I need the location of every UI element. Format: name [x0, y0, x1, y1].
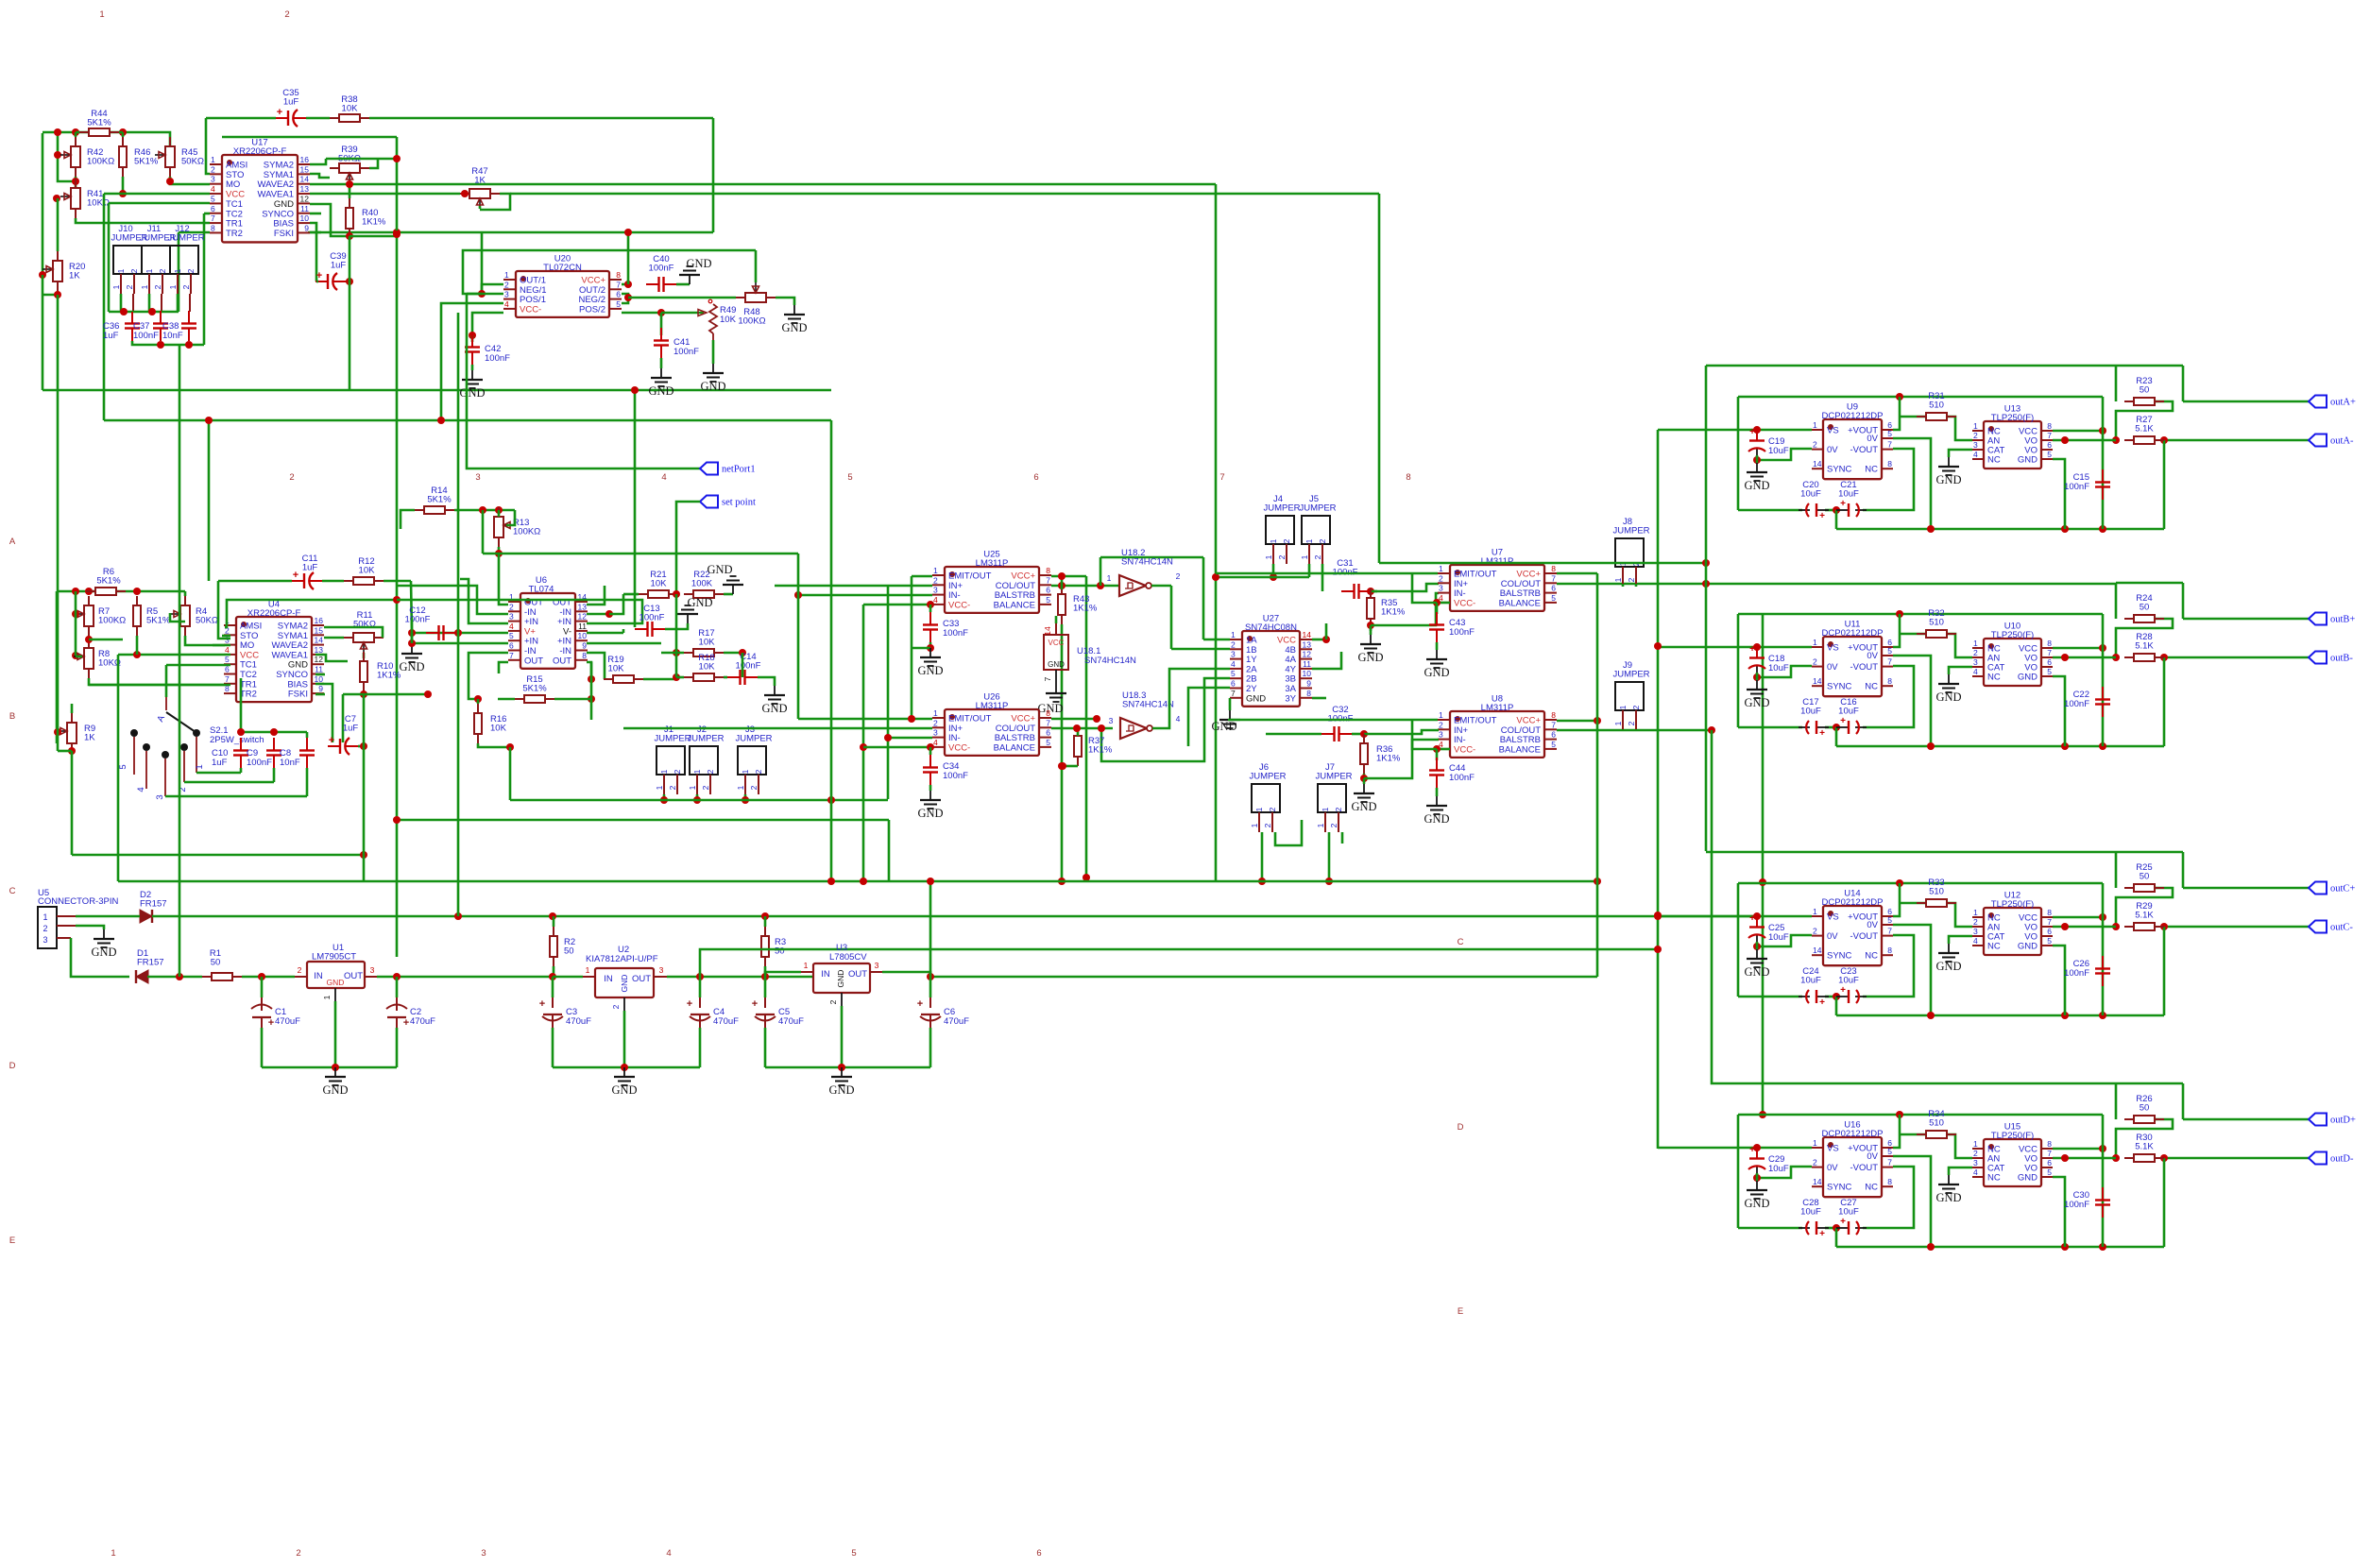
junction k	[393, 230, 401, 238]
svg-text:GND: GND	[1744, 696, 1769, 709]
wire c5 bot	[764, 1028, 767, 1067]
svg-text:1: 1	[322, 995, 332, 999]
svg-text:5: 5	[211, 194, 215, 203]
svg-text:10K: 10K	[608, 664, 625, 674]
svg-text:3: 3	[1973, 657, 1978, 667]
wire p8 vcc	[622, 283, 628, 286]
svg-text:1K1%: 1K1%	[362, 217, 386, 228]
potentiometer R9	[57, 713, 95, 753]
wire r35 bot	[1370, 628, 1373, 631]
junction x665d	[624, 229, 632, 236]
svg-text:1: 1	[933, 566, 938, 575]
svg-text:DCP021212DP: DCP021212DP	[1822, 1129, 1884, 1139]
wire outC+ u13 gnd drop	[2053, 946, 2065, 1015]
svg-text:4: 4	[1176, 714, 1181, 724]
svg-text:+: +	[1840, 716, 1846, 726]
svg-text:8: 8	[2047, 421, 2052, 431]
wire r4 arrow link	[170, 613, 185, 622]
wire c3 top	[552, 977, 554, 997]
svg-text:3: 3	[933, 586, 938, 595]
svg-text:1: 1	[1613, 721, 1623, 725]
wire u7 p8	[1557, 572, 1597, 575]
svg-text:DCP021212DP: DCP021212DP	[1822, 897, 1884, 908]
wire r19 right	[643, 678, 676, 681]
wire j5 p2 down	[1321, 564, 1324, 591]
svg-text:outC+: outC+	[2330, 884, 2355, 895]
junction i6	[860, 743, 867, 751]
wire outC+ 0V5 down	[1893, 925, 1931, 1015]
wire j6 p1	[1261, 832, 1264, 881]
svg-text:8: 8	[2047, 1139, 2052, 1149]
capacitor C36	[103, 311, 140, 341]
wire c40gnd	[676, 283, 690, 286]
wire u6 p13	[587, 613, 609, 616]
ground	[917, 648, 943, 677]
svg-text:1: 1	[211, 155, 215, 164]
wire x76 down	[71, 751, 74, 855]
resistor R49	[698, 299, 737, 340]
svg-text:GND: GND	[648, 384, 673, 398]
svg-text:6: 6	[1231, 679, 1236, 689]
wire setpoint wire	[676, 502, 700, 594]
wire row615v	[218, 581, 230, 639]
wire c8 bot	[306, 768, 309, 796]
wire w125a	[206, 117, 276, 120]
svg-text:10: 10	[300, 213, 310, 223]
svg-text:JUMPER: JUMPER	[654, 734, 691, 744]
svg-text:7: 7	[1043, 676, 1052, 681]
wire r42-r41	[75, 177, 77, 188]
capacitor C41	[654, 328, 699, 358]
junction f246	[393, 229, 401, 236]
svg-text:VCC-: VCC-	[948, 742, 970, 753]
svg-text:GND: GND	[1935, 473, 1961, 486]
svg-text:8: 8	[1551, 710, 1556, 720]
junction ch	[2160, 1154, 2168, 1162]
ground	[700, 364, 725, 393]
svg-text:6: 6	[211, 204, 215, 213]
inverter U18.3	[1120, 690, 1174, 739]
wire tr2 wire	[179, 231, 210, 234]
svg-text:VS: VS	[1827, 912, 1839, 923]
svg-text:4: 4	[1973, 1167, 1978, 1177]
wire x965	[911, 576, 913, 719]
svg-text:6: 6	[1046, 586, 1050, 595]
wire u26 p8	[1051, 718, 1097, 721]
svg-text:1K1%: 1K1%	[1381, 607, 1406, 618]
svg-text:10KΩ: 10KΩ	[87, 198, 110, 209]
svg-text:8: 8	[1046, 708, 1050, 718]
svg-text:3: 3	[1109, 716, 1114, 725]
wire outC- flag wire	[2164, 926, 2309, 929]
frame marker C	[9, 886, 16, 896]
svg-text:3: 3	[211, 175, 215, 184]
wire u8 p7 row	[1557, 729, 1712, 732]
svg-text:1: 1	[504, 270, 509, 280]
junction m	[120, 308, 128, 315]
wire outB+ c15 col	[2102, 614, 2105, 746]
svg-text:LM311P: LM311P	[976, 558, 1009, 569]
svg-text:GND: GND	[917, 664, 943, 677]
svg-text:GND: GND	[2018, 1173, 2038, 1184]
svg-text:2: 2	[1973, 431, 1978, 440]
junction ch	[1833, 724, 1840, 731]
wire j1 p1	[663, 794, 666, 800]
svg-text:+: +	[1749, 427, 1755, 437]
svg-text:4: 4	[504, 299, 509, 309]
svg-text:2: 2	[1176, 571, 1181, 581]
wire u3 out	[882, 972, 1597, 977]
junction p3	[393, 973, 401, 980]
wire x80	[75, 591, 77, 656]
wire j9 p2	[1635, 729, 1638, 730]
svg-text:14: 14	[1813, 459, 1822, 469]
wire outA+ r510 right	[1947, 417, 1972, 440]
junction c	[119, 128, 127, 136]
junction p4	[332, 1064, 339, 1071]
junction l	[346, 278, 353, 285]
svg-text:7: 7	[2047, 648, 2052, 657]
junction ch	[1753, 943, 1761, 950]
svg-text:2: 2	[298, 965, 302, 975]
svg-text:set point: set point	[722, 498, 756, 508]
wire r43 top	[1061, 576, 1064, 589]
svg-text:510: 510	[1929, 887, 1944, 897]
wire x370 down	[349, 236, 351, 390]
svg-text:AMSI: AMSI	[226, 161, 247, 171]
wire r44 gapR	[119, 131, 123, 134]
wire c1 bot	[261, 1028, 264, 1067]
wire x61 bottom	[57, 612, 60, 751]
svg-text:A: A	[9, 537, 16, 547]
wire x216	[203, 213, 206, 345]
svg-text:8: 8	[2047, 908, 2052, 917]
svg-text:7: 7	[211, 213, 215, 223]
capacitor C8	[280, 738, 315, 768]
IC U2 regulator	[583, 945, 667, 1011]
svg-text:4: 4	[211, 184, 215, 194]
svg-text:1: 1	[1439, 564, 1443, 573]
wire x110	[103, 194, 106, 420]
wire c4 bot	[699, 1028, 702, 1067]
wire r47 arrow	[479, 206, 482, 209]
svg-text:TR2: TR2	[226, 229, 243, 239]
ground	[761, 686, 787, 715]
wire chC drive	[1706, 851, 2116, 854]
wire c33 top	[929, 605, 932, 612]
svg-text:GND: GND	[399, 660, 424, 673]
wire r15 r	[554, 698, 591, 701]
svg-text:16: 16	[300, 155, 310, 164]
wire r9 top	[71, 704, 74, 713]
svg-text:2: 2	[1268, 807, 1277, 811]
wire outB+ b2 rail	[1836, 745, 2164, 748]
wire outA+ wrap	[2116, 401, 2173, 440]
pin 5 0V U9	[1867, 429, 1893, 444]
junction bx420	[393, 816, 401, 824]
wire x1755	[1657, 430, 1660, 1149]
wire jbus330	[109, 311, 179, 314]
svg-text:10nF: 10nF	[280, 758, 300, 768]
svg-text:BALANCE: BALANCE	[994, 600, 1035, 610]
resistor R16	[474, 704, 507, 743]
wire c6 bot	[929, 1028, 932, 1067]
svg-text:0V: 0V	[1827, 931, 1838, 942]
wire u8 p4	[1437, 748, 1450, 751]
svg-text:5: 5	[2047, 450, 2052, 459]
svg-text:+: +	[329, 735, 334, 746]
wire outD- drop	[2163, 1158, 2166, 1247]
junction k6e	[1058, 878, 1066, 885]
wire row657r	[384, 580, 411, 583]
wire j3 p1	[744, 794, 747, 800]
junction g4	[68, 747, 76, 755]
potentiometer R7	[74, 596, 126, 636]
svg-text:KIA7812API-U/PF: KIA7812API-U/PF	[586, 954, 658, 964]
svg-text:100nF: 100nF	[673, 347, 699, 357]
svg-text:BALANCE: BALANCE	[1499, 744, 1541, 755]
wire j8 p2	[1635, 584, 1638, 587]
junction ch	[1927, 525, 1935, 533]
junction n4	[237, 728, 245, 736]
wire c42 bot	[471, 365, 474, 370]
capacitor C17	[1799, 697, 1829, 739]
wire outD+ -VOUT loop	[1863, 1167, 1914, 1228]
svg-text:JUMPER: JUMPER	[735, 734, 772, 744]
svg-text:5: 5	[1887, 915, 1892, 925]
svg-text:16: 16	[315, 616, 324, 625]
wire c34 bot	[929, 785, 932, 791]
junction e6	[660, 796, 668, 804]
junction ch	[2112, 436, 2120, 444]
wire c13 gnd	[665, 623, 688, 629]
svg-text:+: +	[1749, 913, 1755, 924]
svg-text:11: 11	[1303, 659, 1311, 669]
capacitor C33	[923, 612, 968, 642]
wire outA+ b1 rail	[1738, 509, 1802, 512]
wire row847	[510, 799, 888, 802]
wire c36t	[131, 311, 134, 312]
wire x435 top	[411, 581, 412, 631]
svg-text:GND: GND	[707, 563, 732, 576]
svg-text:470uF: 470uF	[944, 1016, 969, 1027]
svg-text:VCC-: VCC-	[520, 304, 541, 315]
svg-text:1: 1	[1304, 538, 1314, 543]
resistor R19	[604, 655, 643, 683]
net flag outB+	[2309, 613, 2355, 625]
wire synco4	[315, 673, 325, 676]
svg-text:4: 4	[225, 645, 230, 655]
frame marker D	[9, 1061, 16, 1071]
svg-text:14: 14	[1813, 946, 1822, 955]
svg-text:7: 7	[1231, 689, 1236, 698]
svg-text:NC: NC	[1865, 951, 1878, 962]
jumper J7	[1315, 762, 1352, 832]
svg-text:+: +	[1819, 1229, 1825, 1239]
wire c32 r	[1352, 733, 1364, 736]
svg-text:10uF: 10uF	[1768, 932, 1789, 943]
svg-text:GND: GND	[91, 946, 116, 959]
svg-text:100nF: 100nF	[639, 613, 665, 623]
svg-text:10uF: 10uF	[1838, 707, 1859, 717]
wire r48 right	[776, 298, 794, 305]
wire pin1 wire	[76, 915, 140, 918]
capacitor C14	[727, 652, 761, 685]
frame marker C	[1458, 937, 1464, 947]
svg-text:14: 14	[1813, 1177, 1822, 1186]
wire outA+ +VOUT up	[1893, 397, 1900, 430]
wire u3 gnd	[841, 1006, 844, 1067]
svg-text:1: 1	[1618, 705, 1628, 709]
wire c32 to u8	[1364, 730, 1439, 734]
wire outB+ 0V5 down	[1893, 656, 1931, 746]
junction z6	[1433, 745, 1441, 753]
wire outB+ flag wire	[2183, 618, 2309, 621]
junction r4	[495, 550, 503, 557]
diode D2	[140, 890, 167, 923]
wire outA+ cat gnd	[1949, 450, 1972, 457]
wire wavea2	[310, 183, 1216, 186]
wire row140b	[123, 132, 170, 146]
potentiometer R13	[494, 507, 540, 547]
ground	[1744, 680, 1769, 709]
wire c7r	[358, 745, 364, 748]
wire row933a	[118, 880, 930, 883]
wire row626	[57, 590, 185, 593]
wire rail2 gnd	[553, 1066, 700, 1069]
junction u	[657, 309, 665, 316]
svg-text:50: 50	[2140, 603, 2150, 613]
wire outA- drop	[2163, 440, 2166, 529]
wire row246	[308, 231, 713, 234]
wire outB+ r510 leads	[1900, 633, 1927, 636]
wire u27 p2	[1171, 648, 1230, 651]
ground	[1357, 635, 1383, 664]
svg-text:SYNCO: SYNCO	[262, 209, 294, 219]
junction o4	[270, 728, 278, 736]
wire outD+ r510 right	[1947, 1134, 1972, 1158]
net flag outC-	[2309, 921, 2353, 933]
wire tc2 col	[240, 678, 243, 732]
wire u25 p1	[912, 575, 932, 578]
svg-text:9: 9	[582, 641, 587, 651]
svg-text:GND: GND	[1048, 660, 1065, 669]
junction k6inv	[1097, 582, 1104, 589]
svg-text:+: +	[1749, 644, 1755, 655]
svg-text:GND: GND	[1935, 690, 1961, 704]
wire sw2 link	[184, 781, 274, 784]
wire outD+ VS feed	[1658, 1147, 1812, 1150]
junction j4c	[133, 651, 141, 658]
capacitor C11	[292, 554, 322, 589]
svg-text:4: 4	[1973, 936, 1978, 946]
svg-text:5: 5	[2047, 667, 2052, 676]
svg-text:0V: 0V	[1867, 434, 1878, 444]
wire u6 p7	[499, 662, 508, 673]
wire x1287	[1215, 184, 1218, 881]
svg-text:1: 1	[111, 1548, 115, 1559]
resistor R36	[1360, 734, 1401, 774]
junction q4	[495, 506, 503, 514]
svg-text:2: 2	[1973, 1149, 1978, 1158]
svg-text:6: 6	[2047, 657, 2052, 667]
svg-text:2: 2	[1627, 577, 1636, 582]
svg-text:14: 14	[1043, 626, 1052, 636]
IC U15	[1972, 1122, 2053, 1187]
wire outC+ loop r	[2182, 852, 2185, 888]
junction k6d	[1058, 762, 1066, 770]
junction v6	[1702, 580, 1710, 588]
wire outC+ c15 col	[2102, 883, 2105, 1015]
wire u25 p4	[863, 604, 932, 606]
jumper J8	[1612, 517, 1649, 587]
svg-text:D: D	[9, 1061, 16, 1071]
frame marker D	[1458, 1122, 1464, 1133]
svg-text:6: 6	[2047, 440, 2052, 450]
junction ch	[1896, 393, 1903, 401]
svg-text:4: 4	[933, 738, 938, 747]
junction g	[39, 271, 46, 279]
wire x665 up	[627, 232, 630, 284]
potentiometer R47	[460, 166, 500, 209]
junction d6	[739, 649, 746, 656]
svg-text:3: 3	[504, 290, 509, 299]
frame marker 3	[475, 472, 480, 483]
potentiometer R4	[170, 596, 218, 636]
wire c5 top	[764, 977, 767, 997]
svg-text:2: 2	[125, 284, 134, 289]
wire wavea1	[310, 193, 460, 196]
potentiometer R42	[60, 137, 114, 177]
wire r13 wiper	[506, 510, 515, 525]
svg-text:XR2206CP-F: XR2206CP-F	[247, 608, 301, 619]
capacitor C34	[923, 755, 968, 785]
svg-text:5K1%: 5K1%	[427, 495, 452, 505]
svg-text:470uF: 470uF	[778, 1016, 804, 1027]
jumper J12	[167, 224, 204, 294]
svg-text:2: 2	[1813, 657, 1817, 667]
svg-text:7: 7	[1551, 573, 1556, 583]
capacitor C18	[1748, 644, 1789, 673]
wire j9 p1	[1622, 729, 1625, 730]
svg-text:2: 2	[1334, 807, 1343, 811]
svg-text:1: 1	[1250, 823, 1259, 827]
svg-text:10uF: 10uF	[1838, 1207, 1859, 1218]
net flag outD-	[2309, 1152, 2354, 1165]
wire u6 p14	[587, 586, 605, 605]
wire u26 p2	[623, 727, 932, 730]
resistor R37	[1074, 726, 1113, 766]
junction g6	[742, 796, 749, 804]
svg-text:1uF: 1uF	[212, 758, 228, 768]
wire r18 r	[724, 676, 727, 679]
svg-text:1: 1	[933, 708, 938, 718]
net flag outA-	[2309, 435, 2354, 447]
svg-text:2: 2	[43, 924, 47, 933]
wire w125c	[369, 117, 713, 120]
frame marker 2	[296, 1548, 300, 1559]
ground	[917, 791, 943, 820]
wire x1691	[1596, 573, 1599, 977]
svg-text:SYMA2: SYMA2	[264, 161, 294, 171]
wire c31 to u7	[1371, 584, 1439, 591]
svg-text:10uF: 10uF	[1768, 1164, 1789, 1174]
svg-text:10uF: 10uF	[1800, 976, 1821, 986]
IC U20	[503, 254, 622, 317]
junction f6	[693, 796, 701, 804]
wire u25 p8	[1051, 575, 1086, 578]
svg-text:10uF: 10uF	[1768, 663, 1789, 673]
